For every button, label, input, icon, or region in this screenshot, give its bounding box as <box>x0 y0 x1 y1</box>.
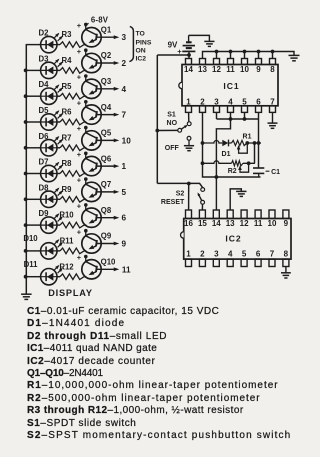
IC2 pin 2 (bottom) <box>199 249 205 266</box>
svg-text:13: 13 <box>226 219 235 228</box>
transistor Q4 <box>82 102 101 125</box>
svg-text:8: 8 <box>270 65 275 74</box>
bracket to pins of IC2 <box>129 26 133 61</box>
junction dot rail pin 10 <box>243 50 247 54</box>
transistor Q8 <box>82 205 101 228</box>
wire bus to LED D11 <box>26 276 41 278</box>
svg-text:Q3: Q3 <box>101 77 112 86</box>
svg-text:D5: D5 <box>39 106 50 115</box>
svg-text:9: 9 <box>122 240 127 249</box>
transistor Q10 <box>82 257 101 279</box>
svg-text:R2: R2 <box>228 168 237 175</box>
junction dot bus row 10 <box>24 275 28 279</box>
svg-text:+: + <box>77 47 82 56</box>
svg-text:D7: D7 <box>39 158 49 167</box>
svg-text:Q5: Q5 <box>101 129 112 138</box>
node output to IC2 pin 7 <box>97 111 127 120</box>
svg-text:6: 6 <box>256 249 261 258</box>
svg-text:7: 7 <box>122 111 127 120</box>
junction dot tie pin 4 <box>229 117 233 121</box>
svg-text:R10: R10 <box>59 211 74 220</box>
svg-text:3: 3 <box>214 97 219 106</box>
svg-text:D11: D11 <box>24 260 39 269</box>
wire bus to LED D5 <box>26 121 41 123</box>
IC2 pin 13 (top) <box>226 210 235 228</box>
IC2 pin 1 (bottom) <box>186 249 192 266</box>
wire rail drop to IC1 pin 9 <box>258 52 260 59</box>
wire rail drop to IC1 pin 11 <box>230 52 232 59</box>
junction dot bus row 9 <box>24 249 28 253</box>
svg-text:8: 8 <box>284 249 289 258</box>
junction dot rail pin 11 <box>229 50 233 54</box>
svg-text:+: + <box>77 124 82 133</box>
svg-text:ON: ON <box>136 48 146 55</box>
svg-text:Q8: Q8 <box>101 206 112 215</box>
+V terminal for Q4 <box>77 98 88 107</box>
wire R2 row with hop <box>203 161 255 164</box>
parts list <box>27 306 317 442</box>
IC1 pin 4 (bottom) <box>228 97 234 112</box>
switch S1 <box>178 122 191 140</box>
potentiometer R2 <box>232 161 249 173</box>
junction dot bus row 5 <box>24 146 28 150</box>
IC2 pin 3 (bottom) <box>213 249 219 266</box>
svg-text:Q1: Q1 <box>101 25 112 34</box>
IC2 pin 14 (top) <box>212 210 221 228</box>
resistor R5 <box>57 93 86 99</box>
junction dot R1 row / pin6 drop <box>257 141 261 145</box>
svg-text:6-8V: 6-8V <box>91 15 109 24</box>
ground (IC2 pin 13) <box>236 191 246 196</box>
transistor Q9 <box>82 231 101 254</box>
junction dot pin 16 wire <box>187 182 191 186</box>
resistor R12 <box>57 274 86 280</box>
ground (rail right end) <box>289 55 300 60</box>
svg-text:TO: TO <box>136 31 145 38</box>
svg-text:+: + <box>77 21 82 30</box>
+V terminal for Q8 <box>77 202 88 211</box>
svg-text:Q2: Q2 <box>101 51 112 60</box>
svg-text:D8: D8 <box>39 183 50 192</box>
svg-text:RESET: RESET <box>161 199 185 206</box>
resistor R11 <box>57 248 86 254</box>
svg-text:6: 6 <box>256 97 261 106</box>
transistor Q2 <box>82 50 101 72</box>
svg-text:2: 2 <box>122 59 127 68</box>
junction dot R1 right <box>245 141 249 145</box>
IC2 pin 12 (top) <box>240 210 249 228</box>
svg-text:DISPLAY: DISPLAY <box>48 288 93 298</box>
svg-text:11: 11 <box>226 65 235 74</box>
wire S1 OFF to ground <box>188 140 190 145</box>
battery B1 <box>182 35 195 58</box>
junction dot battery positive <box>187 53 191 57</box>
svg-text:D3: D3 <box>39 54 50 63</box>
wire bus to LED D4 <box>26 95 41 97</box>
svg-text:R3: R3 <box>62 30 73 39</box>
supply label 6-8V <box>85 15 109 26</box>
svg-text:3: 3 <box>214 249 219 258</box>
svg-text:5: 5 <box>242 249 247 258</box>
IC1 pin 9 (top) <box>256 59 262 74</box>
IC2 pin 10 (top) <box>268 210 277 228</box>
svg-text:C1: C1 <box>271 169 280 176</box>
svg-text:+: + <box>77 73 82 82</box>
svg-text:D1: D1 <box>222 151 231 158</box>
svg-text:3: 3 <box>122 33 127 42</box>
svg-text:+: + <box>77 176 82 185</box>
svg-text:7: 7 <box>270 97 275 106</box>
junction dot pin2/D1 row <box>201 141 205 145</box>
wire bus to LED D2 <box>26 44 41 46</box>
node output to IC2 pin 10 <box>97 136 132 145</box>
junction dot bus row 4 <box>24 120 28 124</box>
display bus wire <box>25 45 27 294</box>
svg-text:14: 14 <box>184 65 193 74</box>
wire bus to LED D6 <box>26 147 41 149</box>
node output to IC2 pin 5 <box>97 188 127 197</box>
junction dot rail pin 12 <box>215 50 219 54</box>
svg-text:4: 4 <box>228 97 233 106</box>
+V terminal for Q5 <box>77 124 88 133</box>
IC1 4011 body <box>179 65 278 106</box>
svg-text:R1: R1 <box>243 134 252 141</box>
transistor Q7 <box>82 179 101 201</box>
wire supply bus to S2/IC2 pin16 <box>157 183 202 187</box>
wire bus to S1 common <box>157 129 178 131</box>
junction dot bus row 2 <box>24 69 28 73</box>
wire rail drop to IC1 pin 12 <box>216 52 218 59</box>
LED D4 <box>41 84 63 104</box>
LED D5 <box>41 110 63 130</box>
IC1 pin 11 (top) <box>226 59 235 74</box>
svg-text:5: 5 <box>122 188 127 197</box>
IC2 pin 4 (bottom) <box>227 249 233 266</box>
svg-text:R8: R8 <box>62 159 73 168</box>
node output to IC2 pin 2 <box>97 59 127 68</box>
LED D8 <box>41 188 63 208</box>
node output to IC2 pin 6 <box>97 214 127 223</box>
svg-text:Q4: Q4 <box>101 103 112 112</box>
svg-text:2: 2 <box>200 97 205 106</box>
+V terminal for Q7 <box>77 176 88 185</box>
IC2 pin 6 (bottom) <box>255 249 261 266</box>
svg-text:7: 7 <box>270 249 275 258</box>
svg-text:9: 9 <box>284 219 289 228</box>
wire battery negative to ground <box>189 35 210 41</box>
svg-text:2: 2 <box>200 249 205 258</box>
svg-text:4: 4 <box>122 85 127 94</box>
wire D1/R1 row with hop <box>203 141 262 144</box>
svg-text:D2: D2 <box>39 29 50 38</box>
svg-text:D6: D6 <box>39 132 50 141</box>
potentiometer R1 <box>232 140 248 153</box>
wire bus to LED D9 <box>26 224 41 226</box>
IC1 pin 8 (top) <box>270 59 276 74</box>
svg-text:+: + <box>77 227 82 236</box>
svg-text:R4: R4 <box>62 56 73 65</box>
node output to IC2 pin 1 <box>97 162 127 171</box>
IC2 pin 7 (bottom) <box>269 249 275 266</box>
junction dot bus row 8 <box>24 223 28 227</box>
+V terminal for Q1 <box>77 21 88 30</box>
IC2 4017 body <box>181 219 292 260</box>
transistor Q1 <box>82 24 101 47</box>
IC1 pin 5 (bottom) <box>242 97 248 112</box>
wire bus to LED D10 <box>26 250 41 252</box>
svg-text:1: 1 <box>122 162 127 171</box>
ground (S1 OFF) <box>184 146 194 151</box>
+V terminal for Q6 <box>77 150 88 159</box>
resistor R10 <box>57 222 86 228</box>
wire rail drop to IC1 pin 8 <box>272 52 274 59</box>
wire IC2 pin 8 to ground <box>285 267 287 273</box>
svg-text:D10: D10 <box>23 234 38 243</box>
svg-text:IC2: IC2 <box>136 55 147 62</box>
junction dot bus row 3 <box>24 94 28 98</box>
svg-text:12: 12 <box>212 65 221 74</box>
+V terminal for Q2 <box>77 47 88 56</box>
resistor R7 <box>57 145 86 151</box>
svg-text:14: 14 <box>212 219 221 228</box>
wire S1 NO to IC1 pin 1 <box>188 112 190 122</box>
wire rail drop to IC1 pin 10 <box>244 52 246 59</box>
svg-text:+: + <box>77 98 82 107</box>
junction dot bus row 7 <box>24 197 28 201</box>
LED D7 <box>41 162 63 182</box>
wire bus to LED D8 <box>26 198 41 200</box>
transistor Q6 <box>82 153 101 176</box>
svg-text:R7: R7 <box>62 133 72 142</box>
svg-text:IC1: IC1 <box>223 81 239 91</box>
svg-text:9: 9 <box>256 65 261 74</box>
svg-text:NO: NO <box>167 120 178 127</box>
LED D11 <box>41 265 63 285</box>
label C1 <box>266 169 281 176</box>
switch S2 <box>198 188 205 205</box>
transistor Q3 <box>82 76 101 99</box>
svg-text:S1: S1 <box>167 112 176 119</box>
LED D3 <box>41 59 63 79</box>
IC1 pin 7 (bottom) <box>270 97 276 112</box>
resistor R8 <box>57 171 86 177</box>
resistor R4 <box>57 68 86 74</box>
LED D6 <box>41 136 63 156</box>
node output to IC2 pin 9 <box>97 240 127 249</box>
resistor R9 <box>57 197 86 203</box>
svg-text:10: 10 <box>268 219 277 228</box>
IC1 pin 3 (bottom) <box>214 97 220 112</box>
svg-text:13: 13 <box>198 65 207 74</box>
wire battery + to left bus <box>157 54 189 56</box>
IC1 pin 6 (bottom) <box>256 97 262 112</box>
LED D9 <box>41 213 63 233</box>
svg-text:Q7: Q7 <box>101 180 111 189</box>
IC2 pin 11 (top) <box>254 210 263 228</box>
junction dot rail pin 8 <box>271 50 275 54</box>
svg-text:R5: R5 <box>62 82 73 91</box>
junction dot R2 right <box>247 161 251 165</box>
ground (display bus) <box>21 294 32 299</box>
svg-text:Q9: Q9 <box>101 232 112 241</box>
IC1 pin 2 (bottom) <box>200 97 206 112</box>
junction dot tie pin 5 <box>243 117 247 121</box>
IC2 pin 8 (bottom) <box>283 249 289 266</box>
wire IC1 pin 6 down to C1 <box>258 119 260 168</box>
svg-text:D9: D9 <box>39 209 50 218</box>
ground (IC2 pin 8) <box>281 273 291 278</box>
IC1 pin 10 (top) <box>240 59 249 74</box>
IC2 pin 9 (top) <box>283 210 289 228</box>
svg-text:Q10: Q10 <box>101 258 116 267</box>
svg-text:10: 10 <box>240 65 249 74</box>
node output to IC2 pin 4 <box>97 85 127 94</box>
wire S2 to IC2 pin 15 <box>201 204 203 210</box>
svg-text:+: + <box>77 150 82 159</box>
resistor R6 <box>57 119 86 125</box>
note TO PINS ON IC2 <box>136 31 152 63</box>
svg-text:R6: R6 <box>62 108 73 117</box>
resistor R3 <box>57 42 86 48</box>
junction dot R1 row / v1 <box>253 141 257 145</box>
IC1 pin 13 (top) <box>198 59 207 74</box>
ground (battery negative) <box>204 41 214 46</box>
svg-text:5: 5 <box>242 97 247 106</box>
svg-text:S2: S2 <box>176 191 185 198</box>
svg-text:OFF: OFF <box>165 145 180 152</box>
node output to IC2 pin 11 <box>97 265 131 274</box>
IC2 pin 15 (top) <box>198 210 207 228</box>
svg-text:11: 11 <box>122 265 131 274</box>
wire bus to LED D3 <box>26 69 41 71</box>
svg-text:R12: R12 <box>59 262 74 271</box>
svg-text:15: 15 <box>198 219 207 228</box>
wire IC1 pins 3-6 tie <box>217 112 259 119</box>
svg-text:16: 16 <box>184 219 193 228</box>
diode D1 <box>222 140 228 147</box>
svg-text:IC2: IC2 <box>225 233 241 243</box>
+V terminal for Q9 <box>77 227 88 236</box>
IC1 pin 12 (top) <box>212 59 221 74</box>
svg-text:PINS: PINS <box>136 39 152 46</box>
IC2 pin 16 (top) <box>184 210 193 228</box>
transistor Q5 <box>82 128 101 150</box>
wire down to IC2 pin 16 <box>188 184 190 211</box>
svg-text:10: 10 <box>122 136 132 145</box>
svg-text:Q6: Q6 <box>101 154 112 163</box>
svg-text:11: 11 <box>254 219 263 228</box>
svg-text:R9: R9 <box>62 185 73 194</box>
svg-text:D4: D4 <box>39 80 50 89</box>
IC1 pin 14 (top) <box>184 59 193 74</box>
node output to IC2 pin 3 <box>97 33 127 42</box>
ground (IC1 pin 7) <box>268 112 278 128</box>
wire IC1 pin 2 down and bottom rail <box>203 112 261 177</box>
junction dot pin2/R2 row <box>201 161 205 165</box>
junction dot rail pin 9 <box>257 50 261 54</box>
junction dot bus row 6 <box>24 172 28 176</box>
+V terminal for Q10 <box>77 253 88 262</box>
IC1 pin 1 (bottom) <box>186 97 192 112</box>
svg-text:12: 12 <box>240 219 249 228</box>
svg-text:1: 1 <box>186 249 191 258</box>
svg-text:4: 4 <box>228 249 233 258</box>
LED D2 <box>41 33 63 53</box>
left supply bus wire <box>156 55 158 183</box>
IC2 pin 5 (bottom) <box>241 249 247 266</box>
LED D10 <box>41 239 63 259</box>
wire R1 row to R2 row (v1) <box>254 143 256 163</box>
wire IC2 pin 13 to ground <box>230 189 241 210</box>
wire bus to LED D7 <box>26 173 41 175</box>
capacitor C1 <box>253 168 264 177</box>
+V terminal for Q3 <box>77 73 88 82</box>
wire ground rail over IC1 pins 13-8 <box>203 52 295 59</box>
svg-text:6: 6 <box>122 214 127 223</box>
junction dot bottom rail / IC2 pin14 wire <box>215 175 219 179</box>
svg-text:+: + <box>77 202 82 211</box>
svg-text:R11: R11 <box>60 237 75 246</box>
svg-text:+: + <box>77 253 82 262</box>
junction dot S1 tap on supply bus <box>155 129 159 133</box>
wire pin-4 tie to IC2 pin 14 <box>216 119 230 210</box>
svg-text:1: 1 <box>186 97 191 106</box>
